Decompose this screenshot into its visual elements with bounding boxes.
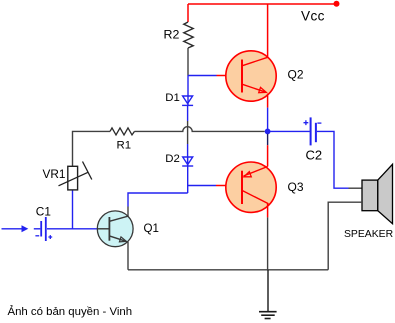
wire R1 left lead with corner (dark) xyxy=(73,131,111,166)
wire C1 to Q1 base (blue) xyxy=(47,228,97,230)
wire Q3 collector to bus (dark) xyxy=(267,217,269,269)
diode D1 xyxy=(182,96,193,105)
wire Vcc rail (red, top) xyxy=(188,3,337,5)
svg-text:C1: C1 xyxy=(36,204,51,218)
svg-text:C2: C2 xyxy=(306,147,323,162)
speaker body xyxy=(362,180,378,211)
wire R1 right with hop over vertical xyxy=(135,127,265,132)
ground xyxy=(259,312,277,319)
wire node to D1 (blue) xyxy=(187,76,189,106)
wire link to Q1 collector (blue) xyxy=(128,193,188,207)
wire below D2 (blue) xyxy=(187,166,189,193)
wire D1-D2 link (dark) xyxy=(187,121,189,144)
svg-text:D2: D2 xyxy=(165,153,180,165)
wire Q2 collector vertical (red) xyxy=(267,4,269,57)
svg-text:SPEAKER: SPEAKER xyxy=(344,229,394,240)
wire Q1 emitter lead (dark) xyxy=(127,242,129,270)
transistor Q1 xyxy=(97,211,133,247)
capacitor C2 xyxy=(304,117,322,145)
wire Q3 emitter lead (red) xyxy=(267,145,269,166)
wire Q2 base red segment xyxy=(217,75,243,77)
node junction dot (blue) xyxy=(265,129,271,135)
resistor R2 xyxy=(184,22,193,48)
svg-text:VR1: VR1 xyxy=(43,167,66,181)
wire ground lead xyxy=(267,270,269,312)
transistor Q3 xyxy=(226,162,276,212)
wire VR1 bottom lead (blue) xyxy=(72,190,74,229)
wire Q3 base red segment xyxy=(216,185,242,187)
wire Q2 emitter lead (red) xyxy=(267,94,269,108)
wire junction to Q3 (navy) xyxy=(267,134,269,145)
input arrow xyxy=(22,225,29,232)
svg-text:Vcc: Vcc xyxy=(301,8,325,23)
svg-text:Q2: Q2 xyxy=(288,67,304,81)
wire input line (blue) xyxy=(2,228,41,230)
wire R2 bottom lead (dark) xyxy=(187,48,189,76)
speaker horn xyxy=(378,164,393,223)
capacitor C1 xyxy=(35,217,52,241)
wire R2 top lead (red) xyxy=(187,4,189,22)
wire Q3 base blue segment xyxy=(188,185,216,187)
wire Q2 emitter to junction (blue) xyxy=(267,108,269,129)
wire D1 cathode lead (blue) xyxy=(187,105,189,121)
svg-text:R1: R1 xyxy=(117,139,132,151)
svg-text:D1: D1 xyxy=(165,92,180,104)
svg-text:Q3: Q3 xyxy=(288,180,304,194)
wire speaker top lead (dark) xyxy=(349,187,363,189)
wire Q1 collector lead (dark) xyxy=(127,207,129,217)
wire C2 to speaker (blue) xyxy=(317,131,349,188)
potentiometer VR1 xyxy=(59,162,92,190)
wire Q3 collector lead (red) xyxy=(267,203,269,217)
node Vcc terminal dot xyxy=(334,1,340,7)
svg-text:R2: R2 xyxy=(164,28,180,42)
wire speaker bottom lead (dark) xyxy=(328,202,362,270)
wire Q2 base blue segment xyxy=(188,75,217,77)
resistor R1 xyxy=(110,128,135,135)
svg-text:Q1: Q1 xyxy=(144,222,159,235)
diode D2 xyxy=(182,157,193,166)
wire junction to C2 (blue) xyxy=(268,130,310,132)
wire emitter/ground bus bottom (dark) xyxy=(128,269,328,271)
transistor Q2 xyxy=(226,51,276,101)
wire D2 anode lead (blue) xyxy=(187,144,189,166)
svg-text:Ảnh có bản quyền - Vinh: Ảnh có bản quyền - Vinh xyxy=(8,305,133,318)
